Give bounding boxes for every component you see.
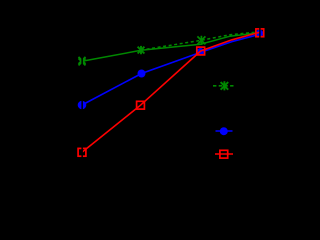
legend entry 3: red line sample <box>215 153 233 155</box>
green X markers point 1 (solid+dashed overlapped) <box>79 57 86 66</box>
red square marker point 4 <box>256 29 264 37</box>
blue series line <box>82 34 260 105</box>
green solid series line <box>82 33 260 62</box>
legend entry 3: red square marker <box>220 150 228 158</box>
blue circle marker point 3 <box>197 48 205 56</box>
green dashed series line <box>141 32 260 50</box>
red square marker point 1 <box>78 148 86 156</box>
legend entry 2: blue line sample <box>216 130 233 132</box>
legend entry 1: green dashed line sample <box>213 85 234 87</box>
blue circle marker point 4 <box>256 30 264 38</box>
green X markers point 2 (solid+dashed overlapped) <box>138 46 145 54</box>
red square marker point 3 <box>197 47 205 55</box>
right axis spine (black, drawn over markers) <box>259 23 260 188</box>
legend entry 1: green X marker <box>221 81 229 90</box>
red series line <box>82 32 260 152</box>
red square marker point 2 <box>137 101 145 109</box>
legend entry 2: blue circle marker <box>220 127 228 135</box>
left axis spine (black, drawn over markers) <box>81 23 83 188</box>
blue circle marker point 1 <box>78 101 87 110</box>
green X markers point 3 (solid+dashed overlapped) <box>197 36 205 45</box>
blue circle marker point 2 <box>138 70 146 78</box>
